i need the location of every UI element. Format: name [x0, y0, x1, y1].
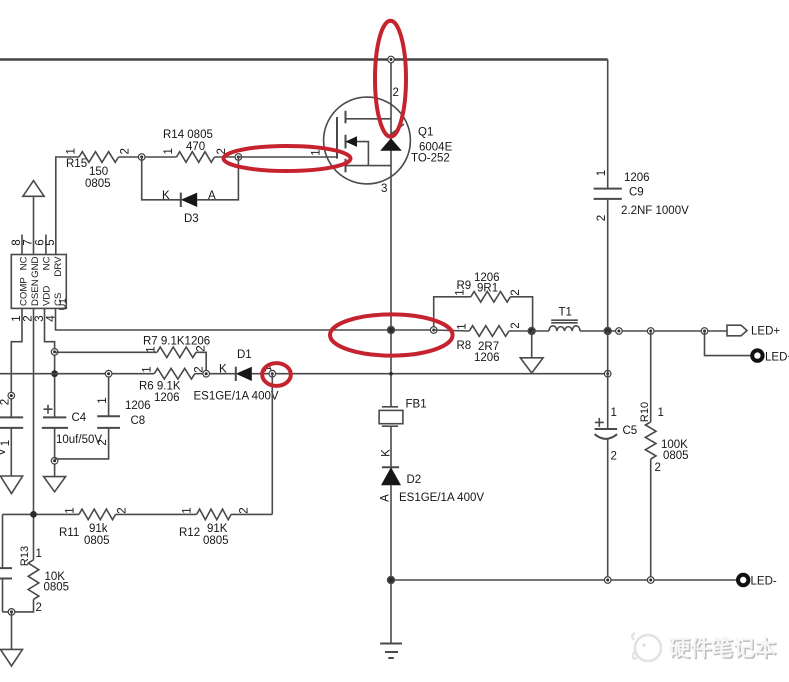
- wire gnd stub bottom-left: [11, 612, 13, 650]
- svg-text:R12: R12: [179, 527, 200, 539]
- svg-text:1206: 1206: [474, 352, 500, 364]
- svg-text:2: 2: [655, 462, 661, 474]
- node C8 top: [105, 370, 112, 377]
- capacitor C9: [594, 170, 689, 221]
- resistor R12: [179, 507, 251, 547]
- svg-text:1206: 1206: [154, 392, 180, 404]
- svg-text:Q1: Q1: [418, 127, 433, 139]
- resistor R8: [434, 322, 532, 364]
- svg-text:K: K: [162, 190, 170, 202]
- svg-text:5: 5: [45, 239, 57, 245]
- capacitor C3 left edge: [0, 399, 23, 476]
- svg-text:COMP: COMP: [19, 277, 30, 306]
- svg-text:10uf/50V: 10uf/50V: [56, 434, 102, 446]
- svg-text:2: 2: [510, 289, 522, 295]
- node CS/drain junction (red circled): [388, 327, 395, 334]
- svg-text:1: 1: [97, 397, 109, 403]
- svg-text:2: 2: [120, 148, 132, 154]
- wire DRV pin5 to R15: [56, 157, 79, 255]
- node C2/R13 gnd: [8, 609, 15, 616]
- node R14/D3/gate: [235, 154, 242, 161]
- ground under C3: [0, 476, 22, 494]
- svg-text:V: V: [0, 448, 8, 456]
- svg-text:LED-: LED-: [751, 576, 777, 588]
- svg-text:NC: NC: [42, 256, 53, 270]
- resistor R14: [163, 129, 228, 162]
- wire VDD/D1 rail: [0, 373, 607, 375]
- svg-text:0805: 0805: [44, 582, 70, 594]
- svg-text:R10: R10: [639, 402, 651, 422]
- svg-text:1: 1: [66, 148, 78, 154]
- svg-text:1: 1: [0, 440, 12, 446]
- ground IEC under D2: [380, 644, 402, 659]
- svg-text:2: 2: [510, 322, 522, 328]
- resistor R7: [143, 336, 210, 358]
- svg-text:91K: 91K: [207, 523, 228, 535]
- diode D2: [380, 449, 485, 504]
- node T1/right rail junction: [604, 328, 611, 335]
- svg-text:R15: R15: [66, 158, 87, 170]
- svg-text:D3: D3: [184, 213, 199, 225]
- ground up-triangle at pin7 GND: [23, 181, 44, 255]
- svg-text:2: 2: [97, 439, 109, 445]
- node D1 anode junction (red circled): [269, 370, 276, 377]
- svg-text:1: 1: [142, 366, 154, 372]
- node LED+ branch: [701, 328, 708, 335]
- node LED- / C5 rail: [604, 577, 611, 584]
- svg-text:8: 8: [11, 239, 23, 245]
- node C3 top: [8, 392, 15, 399]
- svg-text:FB1: FB1: [406, 399, 427, 411]
- node R8/T1 junction: [528, 328, 535, 335]
- svg-text:2: 2: [596, 215, 608, 221]
- ferrite bead FB1: [379, 399, 426, 427]
- node VDD rail junction: [51, 370, 58, 377]
- capacitor C4: [42, 405, 103, 477]
- svg-text:C8: C8: [131, 415, 146, 427]
- svg-text:0805: 0805: [663, 450, 689, 462]
- IC U1 box: [11, 255, 68, 311]
- node wire marker: [616, 328, 623, 335]
- svg-text:R9: R9: [457, 280, 472, 292]
- inductor T1: [549, 307, 580, 332]
- svg-text:T1: T1: [559, 307, 572, 319]
- capacitor C8: [55, 374, 151, 459]
- svg-text:LED+: LED+: [765, 352, 789, 364]
- diode D3 branch wires: [142, 157, 239, 200]
- svg-text:1: 1: [146, 346, 158, 352]
- svg-text:1: 1: [311, 149, 323, 155]
- wire DSEN pin2 vertical: [33, 308, 35, 559]
- transistor Q1: [324, 87, 453, 195]
- annotation red ellipse gate wire: [224, 146, 351, 171]
- ground under C4: [44, 477, 66, 492]
- svg-text:1: 1: [658, 407, 664, 419]
- wire gate: [238, 149, 337, 157]
- resistor R6: [139, 366, 206, 404]
- node LED- / R10: [647, 577, 654, 584]
- wire CS pin4 rail: [56, 308, 434, 330]
- wire D1 node to R12: [271, 374, 273, 515]
- svg-text:2: 2: [239, 507, 251, 513]
- annotation red ellipse CS junction: [330, 314, 453, 355]
- svg-text:2: 2: [196, 345, 208, 351]
- svg-text:DRV: DRV: [53, 256, 64, 277]
- capacitor C5: [595, 407, 638, 463]
- diode D1: [194, 349, 279, 403]
- svg-text:R8: R8: [457, 340, 472, 352]
- svg-text:D2: D2: [407, 474, 422, 486]
- wire R11 rail: [3, 513, 273, 515]
- wire LED+ ring branch: [705, 331, 751, 356]
- svg-text:K: K: [219, 364, 227, 376]
- resistor R10: [639, 331, 689, 580]
- svg-text:0805: 0805: [84, 535, 110, 547]
- node drain junction: [388, 56, 395, 63]
- svg-text:CS: CS: [53, 293, 64, 306]
- wire Q1 drain vertical: [390, 60, 392, 407]
- node VDD/R7: [51, 349, 58, 356]
- wire COMP pin1 jog: [11, 308, 22, 417]
- svg-text:K: K: [381, 449, 393, 457]
- wire R15 to node: [119, 156, 177, 158]
- node LED- / D2: [388, 577, 395, 584]
- svg-text:C9: C9: [629, 187, 644, 199]
- svg-text:LED+: LED+: [751, 326, 780, 338]
- annotation red ellipse D1 anode: [262, 363, 291, 386]
- svg-text:GND: GND: [30, 256, 41, 277]
- annotation red ellipse drain pin2: [375, 21, 406, 137]
- svg-text:9R1: 9R1: [477, 283, 498, 295]
- svg-text:R11: R11: [59, 527, 79, 539]
- svg-text:DSEN: DSEN: [30, 279, 41, 306]
- watermark logo: [632, 633, 661, 661]
- svg-text:1: 1: [36, 548, 42, 560]
- svg-text:A: A: [208, 190, 216, 202]
- svg-text:0805: 0805: [203, 535, 229, 547]
- connector LED+ arrow: [727, 325, 780, 337]
- wire T1 row: [532, 330, 727, 332]
- U1 pin labels top row: [19, 256, 65, 278]
- svg-text:1: 1: [611, 407, 617, 419]
- svg-text:A: A: [380, 494, 392, 502]
- svg-text:1206: 1206: [125, 400, 151, 412]
- svg-text:R6 9.1K: R6 9.1K: [139, 381, 181, 393]
- svg-text:2: 2: [0, 399, 12, 405]
- connector LED+ ring: [752, 350, 789, 363]
- svg-text:1: 1: [182, 507, 194, 513]
- node R9 branch: [430, 327, 437, 334]
- svg-text:VDD: VDD: [42, 286, 53, 306]
- svg-text:2: 2: [36, 602, 42, 614]
- svg-text:1: 1: [65, 507, 77, 513]
- U1 top pin stubs 8,7,6,5: [11, 235, 57, 255]
- resistor R15: [66, 148, 132, 190]
- node DSEN/R11/R13: [30, 511, 37, 518]
- svg-text:150: 150: [89, 166, 108, 178]
- svg-text:1: 1: [163, 148, 175, 154]
- wire C9 pin2 to mid rail: [607, 199, 609, 331]
- resistor R11: [59, 507, 129, 547]
- svg-text:1: 1: [457, 323, 469, 329]
- wire VDD pin3 jog: [45, 308, 55, 417]
- watermark text: [669, 636, 779, 663]
- wire R9 loop: [434, 297, 533, 330]
- svg-text:2: 2: [117, 507, 129, 513]
- ground bottom-left: [1, 649, 23, 666]
- svg-text:NC: NC: [19, 256, 30, 270]
- svg-text:ES1GE/1A 400V: ES1GE/1A 400V: [399, 492, 484, 504]
- svg-text:2.2NF 1000V: 2.2NF 1000V: [621, 205, 689, 217]
- U1 pin labels bottom row: [19, 277, 65, 306]
- svg-text:91k: 91k: [89, 523, 108, 535]
- wire LED- rail: [391, 579, 736, 581]
- node drain crossing dot: [389, 372, 393, 376]
- svg-text:D1: D1: [237, 349, 252, 361]
- svg-text:ES1GE/1A 400V: ES1GE/1A 400V: [194, 391, 279, 403]
- resistor R9: [455, 272, 523, 302]
- resistor R13: [3, 546, 70, 614]
- svg-text:0805: 0805: [85, 178, 111, 190]
- wire R7 row: [55, 352, 207, 373]
- node C4 gnd: [51, 458, 58, 465]
- U1 bottom pin numbers 1,2,3,4: [11, 315, 58, 322]
- svg-text:R14 0805: R14 0805: [163, 129, 213, 141]
- svg-text:R13: R13: [19, 546, 31, 566]
- svg-text:C5: C5: [623, 425, 638, 437]
- svg-text:470: 470: [186, 141, 205, 153]
- svg-text:TO-252: TO-252: [411, 153, 450, 165]
- svg-text:3: 3: [381, 183, 387, 195]
- connector LED- ring: [738, 575, 777, 588]
- wire top rail: [0, 58, 608, 60]
- wire R14 to gate node: [215, 156, 239, 158]
- node D1 rail / right rail: [604, 370, 611, 377]
- wire right rail to C5: [607, 331, 609, 580]
- node R10 branch: [647, 328, 654, 335]
- ground under R8 node: [520, 331, 543, 373]
- svg-text:1206: 1206: [624, 172, 650, 184]
- node R15/R14/D3: [138, 154, 145, 161]
- svg-text:1: 1: [596, 170, 608, 176]
- node R6/R7: [203, 370, 210, 377]
- capacitor C2 left edge bottom: [0, 514, 12, 612]
- svg-text:2: 2: [393, 87, 399, 99]
- svg-text:硬件笔记本: 硬件笔记本: [669, 636, 777, 661]
- wire FB1 to D2: [390, 426, 392, 467]
- svg-text:2: 2: [611, 451, 617, 463]
- wire right rail upper (to C9 pin1): [607, 60, 609, 189]
- diode D3: [162, 190, 216, 225]
- svg-text:C4: C4: [72, 412, 87, 424]
- wire D2 to gnd: [390, 485, 392, 643]
